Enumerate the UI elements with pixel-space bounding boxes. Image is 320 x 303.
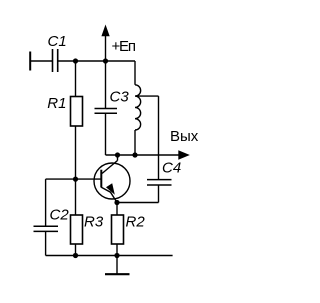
svg-text:C4: C4 xyxy=(162,160,181,177)
svg-text:C2: C2 xyxy=(50,207,70,224)
svg-text:C3: C3 xyxy=(110,89,130,106)
svg-text:+Eп: +Eп xyxy=(112,38,136,55)
svg-text:C1: C1 xyxy=(48,33,67,50)
svg-text:Вых: Вых xyxy=(170,128,199,145)
svg-text:R3: R3 xyxy=(84,213,104,230)
svg-text:R1: R1 xyxy=(47,95,66,112)
svg-text:R2: R2 xyxy=(126,213,146,230)
